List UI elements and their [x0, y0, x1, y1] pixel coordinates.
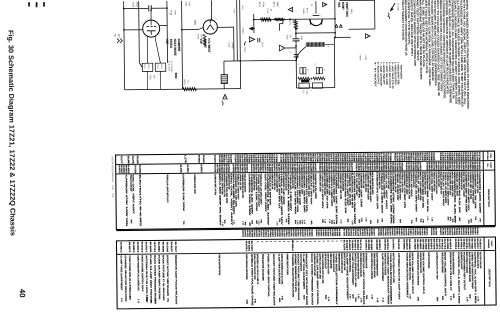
svg-text:30: 30 [376, 219, 379, 223]
svg-text:DAMPER: DAMPER [177, 39, 181, 52]
parts table 1 [111, 151, 496, 239]
svg-text:C175: C175 [131, 156, 134, 165]
svg-text:CLAMP YOKE ADJUSTMENT: CLAMP YOKE ADJUSTMENT [381, 253, 384, 282]
svg-text:45-9475-2: 45-9475-2 [245, 241, 248, 252]
main horiz bus to vert osc [254, 18, 335, 21]
svg-text:CARBON 56K 1W 5%: CARBON 56K 1W 5% [214, 174, 217, 195]
svg-text:33-6325: 33-6325 [426, 162, 429, 171]
svg-text:S188: S188 [127, 156, 130, 165]
wire bottom horizontal [125, 89, 241, 90]
svg-text:SOCKET PICTURE TUBE W/LEADS: SOCKET PICTURE TUBE W/LEADS [297, 254, 300, 302]
fuse links P-8-A [142, 63, 153, 71]
svg-text:33-5582-3: 33-5582-3 [462, 238, 465, 249]
svg-text:ANTENNA BUILT-IN LOOP ASSY: ANTENNA BUILT-IN LOOP ASSY [397, 253, 400, 301]
svg-text:76-8413: 76-8413 [441, 239, 444, 251]
svg-text:C194: C194 [234, 155, 237, 164]
tube V10 vert osc [310, 19, 323, 25]
svg-text:8: 8 [306, 69, 309, 70]
label V15 [165, 39, 169, 45]
svg-text:7 - KINE CATHODE: 7 - KINE CATHODE [379, 62, 382, 86]
svg-text:CORD POWER W/PLUG & INTERLOCK: CORD POWER W/PLUG & INTERLOCK [136, 255, 139, 291]
small labels [184, 1, 187, 7]
svg-text:CABINET ASSY MAHOGANY FINISH: CABINET ASSY MAHOGANY FINISH [326, 253, 329, 274]
svg-text:63-5607-2: 63-5607-2 [439, 228, 442, 236]
supply rails [236, 0, 239, 61]
svg-text:C104: C104 [213, 155, 216, 164]
svg-text:3: 3 [297, 63, 300, 64]
svg-text:60: 60 [369, 220, 372, 224]
mini coil boxes [300, 68, 303, 74]
svg-text:1 10: 1 10 [426, 216, 429, 220]
svg-text:9 - B+ BOOST: 9 - B+ BOOST [374, 62, 377, 88]
voltage labels [359, 54, 362, 61]
svg-text:61-2176: 61-2176 [343, 240, 346, 252]
svg-text:R171: R171 [258, 2, 261, 8]
svg-text:75: 75 [474, 216, 477, 220]
resistor R171 [261, 18, 272, 21]
svg-text:TO YOKE: TO YOKE [396, 2, 399, 11]
svg-text:75: 75 [410, 220, 413, 224]
electrolytic C160 [221, 75, 227, 84]
svg-text:1 25: 1 25 [431, 217, 434, 221]
wire lower bus to yoke box [240, 59, 296, 62]
svg-text:3 - AGC BUS (TP-3): 3 - AGC BUS (TP-3) [391, 62, 394, 89]
svg-text:SWITCH INTERLOCK AC LINE: SWITCH INTERLOCK AC LINE [321, 253, 324, 284]
svg-text:* USED ON 17Z22Q CHASSIS ONLY: * USED ON 17Z22Q CHASSIS ONLY [111, 156, 114, 183]
svg-text:30: 30 [447, 216, 450, 220]
svg-text:OF CHASSIS): OF CHASSIS) [170, 61, 173, 73]
svg-text:75: 75 [479, 218, 482, 222]
svg-text:54-9561: 54-9561 [186, 165, 189, 174]
svg-text:CORD POWER W/PLUG & INTERLOCK: CORD POWER W/PLUG & INTERLOCK [348, 253, 351, 272]
svg-text:C177: C177 [120, 156, 123, 165]
svg-text:CARBON 120K 1/2W: CARBON 120K 1/2W [318, 173, 321, 192]
svg-text:75: 75 [182, 220, 185, 224]
svg-text:6CM7: 6CM7 [341, 2, 345, 10]
stub C164 [282, 19, 284, 23]
svg-text:CABINET ASSY MAHOGANY FINISH: CABINET ASSY MAHOGANY FINISH [329, 253, 332, 268]
svg-text:ANTENNA BUILT-IN LOOP ASSY: ANTENNA BUILT-IN LOOP ASSY [460, 252, 463, 270]
svg-text:CIRCUIT SUBJECT TO CHANGE.: CIRCUIT SUBJECT TO CHANGE. [401, 0, 404, 41]
node B+ boost [114, 34, 117, 37]
svg-text:SPRING EARPHONE JACK RETAINER: SPRING EARPHONE JACK RETAINER [416, 252, 419, 285]
svg-text:8 - AUDIO OUTPUT: 8 - AUDIO OUTPUT [376, 62, 379, 85]
svg-text:CABINET ASSY MAHOGANY FINISH: CABINET ASSY MAHOGANY FINISH [419, 252, 422, 273]
svg-text:KNOB VOLUME CONTROL GOLD: KNOB VOLUME CONTROL GOLD [422, 252, 425, 294]
svg-text:54-1771-2: 54-1771-2 [359, 240, 362, 251]
svg-text:TUBULAR .22 MFD 200V: TUBULAR .22 MFD 200V [129, 175, 132, 192]
svg-text:SOCKET PICTURE TUBE W/LEADS: SOCKET PICTURE TUBE W/LEADS [166, 255, 169, 297]
svg-text:OSC COIL VERT ASSY: OSC COIL VERT ASSY [264, 173, 267, 213]
svg-text:SWITCH INTERLOCK AC LINE: SWITCH INTERLOCK AC LINE [392, 253, 395, 284]
capacitor C103 [148, 5, 150, 11]
capacitor C125 [295, 29, 297, 38]
svg-text:60: 60 [294, 220, 297, 224]
svg-text:63-2114-3: 63-2114-3 [405, 162, 408, 171]
svg-text:45-1715-2: 45-1715-2 [153, 242, 156, 253]
svg-text:1 10: 1 10 [339, 220, 342, 224]
svg-text:SPRING EARPHONE JACK RETAINER: SPRING EARPHONE JACK RETAINER [337, 253, 340, 271]
svg-text:SPEAKER 5 IN. PM 3.2 OHM VC: SPEAKER 5 IN. PM 3.2 OHM VC [476, 252, 479, 269]
svg-text:45-1102-5: 45-1102-5 [136, 242, 139, 253]
svg-text:SCHEM.: SCHEM. [486, 152, 489, 161]
svg-text:60-8918-5: 60-8918-5 [318, 163, 321, 172]
svg-text:CONTROL VOL & ON-OFF 1 MEG: CONTROL VOL & ON-OFF 1 MEG [457, 252, 461, 304]
svg-text:C.P.S.: C.P.S. [305, 90, 308, 96]
svg-text:63-7683-2: 63-7683-2 [460, 239, 463, 250]
svg-text:C103: C103 [132, 2, 135, 8]
svg-text:R110: R110 [393, 153, 396, 162]
svg-text:1 10: 1 10 [241, 221, 244, 225]
svg-text:ELECTROLYTIC 40-40 MFD: ELECTROLYTIC 40-40 MFD [138, 175, 142, 227]
svg-text:R136: R136 [136, 156, 139, 165]
svg-text:63-1561: 63-1561 [247, 241, 250, 253]
svg-text:PIN 3: PIN 3 [350, 9, 353, 14]
svg-text:CORD POWER W/PLUG & INTERLOCK: CORD POWER W/PLUG & INTERLOCK [128, 255, 131, 298]
svg-text:54-3170: 54-3170 [213, 164, 216, 173]
svg-text:275: 275 [302, 90, 305, 93]
transformer T104 [306, 42, 325, 48]
svg-text:30-4454: 30-4454 [416, 239, 419, 251]
svg-text:66-7317: 66-7317 [174, 241, 177, 253]
svg-text:54-4347-3: 54-4347-3 [354, 240, 357, 251]
svg-text:30: 30 [467, 220, 470, 224]
svg-text:56-4235: 56-4235 [446, 239, 449, 251]
resistor R173 [275, 18, 284, 21]
svg-text:No.: No. [486, 163, 489, 168]
svg-text:45-9474-3: 45-9474-3 [241, 230, 244, 238]
svg-text:SPRING EARPHONE JACK RETAINER: SPRING EARPHONE JACK RETAINER [261, 254, 264, 281]
svg-text:1 25: 1 25 [351, 221, 354, 225]
test point 12 [249, 37, 254, 42]
svg-text:66-4424-3: 66-4424-3 [386, 239, 389, 250]
svg-text:56-2050-2: 56-2050-2 [430, 239, 433, 250]
svg-text:76-6649-5: 76-6649-5 [351, 240, 354, 251]
svg-text:66-8071: 66-8071 [128, 242, 131, 254]
svg-text:56-8435: 56-8435 [149, 242, 152, 254]
svg-text:R193: R193 [439, 153, 442, 162]
svg-text:SOCKET PICTURE TUBE W/LEADS: SOCKET PICTURE TUBE W/LEADS [272, 254, 276, 306]
wire lower bus [224, 60, 240, 62]
svg-text:C162: C162 [149, 75, 152, 81]
svg-text:CARBON 120K 1/2W: CARBON 120K 1/2W [248, 173, 251, 215]
test point 4 [365, 34, 370, 39]
svg-text:SHIELD HIGH VOLTAGE CAGE: SHIELD HIGH VOLTAGE CAGE [479, 252, 482, 269]
svg-text:63-2527: 63-2527 [468, 238, 471, 250]
svg-text:30-2053: 30-2053 [138, 165, 141, 174]
svg-text:R156: R156 [197, 155, 200, 164]
svg-text:2 - VIDEO DET OUTPUT: 2 - VIDEO DET OUTPUT [394, 62, 397, 85]
vertical rail A [166, 1, 169, 63]
registration marks [28, 2, 30, 6]
svg-text:1 10: 1 10 [276, 221, 279, 225]
svg-text:PART: PART [490, 241, 493, 248]
svg-text:DESCRIPTION: DESCRIPTION [487, 189, 490, 208]
svg-text:H.V. RECT: H.V. RECT [207, 38, 211, 52]
svg-text:GROMMET RUBBER 3/8 YOKE MTG: GROMMET RUBBER 3/8 YOKE MTG [286, 254, 289, 275]
svg-text:SOCKET PICTURE TUBE W/LEADS: SOCKET PICTURE TUBE W/LEADS [427, 252, 430, 268]
svg-text:66-5947: 66-5947 [348, 240, 351, 252]
svg-text:PART: PART [489, 162, 492, 169]
resistor R166 [203, 34, 206, 46]
svg-text:VERT OSC: VERT OSC [345, 2, 349, 18]
svg-text:FUSE 1/4 AMP 250V PIGTAIL: FUSE 1/4 AMP 250V PIGTAIL [218, 254, 221, 276]
svg-text:56-9080: 56-9080 [408, 239, 411, 251]
svg-text:30: 30 [399, 219, 402, 223]
svg-text:BRACKET CRT MTG RIGHT HAND: BRACKET CRT MTG RIGHT HAND [343, 253, 346, 270]
svg-text:SPEAKER 5 IN. PM 3.2 OHM VC: SPEAKER 5 IN. PM 3.2 OHM VC [256, 254, 259, 285]
svg-text:45-9468-2: 45-9468-2 [457, 239, 460, 250]
svg-text:3: 3 [313, 63, 316, 64]
svg-text:+135V: +135V [364, 54, 367, 61]
svg-text:75: 75 [419, 218, 422, 222]
svg-text:5 - VERT OSC GRID: 5 - VERT OSC GRID [385, 62, 388, 86]
svg-text:FUSE 1/4 AMP 250V PIGTAIL: FUSE 1/4 AMP 250V PIGTAIL [149, 255, 153, 304]
svg-text:56-5326: 56-5326 [375, 239, 378, 251]
tube V15 damper [143, 20, 160, 37]
svg-text:60-3647-2: 60-3647-2 [118, 165, 121, 174]
svg-text:76-2533-3: 76-2533-3 [355, 163, 358, 172]
svg-text:33-7471: 33-7471 [438, 239, 441, 251]
series capacitor in left leg [294, 54, 299, 56]
svg-text:1 - HORIZ OUTPUT GRID: 1 - HORIZ OUTPUT GRID [397, 62, 400, 85]
svg-text:1500: 1500 [135, 2, 138, 8]
svg-text:56-9243: 56-9243 [427, 239, 430, 251]
svg-text:63-1915-5: 63-1915-5 [430, 228, 433, 236]
wire [123, 1, 126, 89]
svg-text:56-6131: 56-6131 [397, 239, 400, 251]
svg-text:CLAMP YOKE ADJUSTMENT: CLAMP YOKE ADJUSTMENT [302, 254, 305, 290]
test point 5 [279, 45, 285, 51]
label V16 [199, 38, 203, 44]
svg-text:5962: 5962 [174, 73, 177, 79]
svg-text:CORD POWER W/PLUG & INTERLOCK: CORD POWER W/PLUG & INTERLOCK [370, 253, 373, 280]
svg-text:FB-22: FB-22 [147, 64, 150, 69]
test point 9 [223, 94, 227, 99]
svg-text:SPEAKER 5 IN. PM 3.2 OHM VC: SPEAKER 5 IN. PM 3.2 OHM VC [449, 252, 452, 291]
svg-text:HALF WAVE: HALF WAVE [173, 39, 177, 56]
svg-text:FB-23: FB-23 [160, 64, 163, 69]
svg-text:76-2913-3: 76-2913-3 [479, 238, 482, 249]
svg-text:33-3065: 33-3065 [367, 239, 370, 251]
svg-text:CHANNEL SELECTOR INDICATOR: CHANNEL SELECTOR INDICATOR [291, 254, 294, 298]
svg-text:54-4873: 54-4873 [435, 239, 438, 251]
svg-text:TEST POINTS:: TEST POINTS: [399, 65, 402, 79]
svg-text:YOKE DEFLECTION ASSEMBLY: YOKE DEFLECTION ASSEMBLY [405, 252, 408, 298]
svg-text:76-1356: 76-1356 [134, 165, 137, 174]
svg-text:8: 8 [323, 69, 326, 70]
svg-text:56-3286-3: 56-3286-3 [291, 240, 294, 251]
svg-text:63-7966: 63-7966 [377, 229, 380, 237]
svg-text:KNOB VOLUME CONTROL GOLD: KNOB VOLUME CONTROL GOLD [324, 253, 327, 268]
svg-text:TRANSFORMER VERT OUTPUT: TRANSFORMER VERT OUTPUT [462, 252, 465, 291]
wire to V16 [182, 29, 198, 31]
svg-text:ANTENNA BUILT-IN LOOP ASSY: ANTENNA BUILT-IN LOOP ASSY [435, 252, 438, 280]
svg-text:75: 75 [381, 218, 384, 222]
svg-text:33-7660: 33-7660 [413, 239, 416, 251]
svg-text:33-2028-3: 33-2028-3 [345, 240, 348, 251]
svg-text:30-1521-2: 30-1521-2 [145, 242, 148, 253]
svg-text:SHIELD HIGH VOLTAGE CAGE: SHIELD HIGH VOLTAGE CAGE [250, 254, 254, 307]
svg-text:45-7659: 45-7659 [422, 239, 425, 251]
svg-text:MASK PICTURE 17 IN. MOLDED: MASK PICTURE 17 IN. MOLDED [162, 255, 165, 301]
svg-text:19AU4: 19AU4 [169, 39, 173, 48]
resistor R124 [298, 77, 310, 80]
svg-text:CLAMP YOKE ADJUSTMENT: CLAMP YOKE ADJUSTMENT [345, 253, 348, 301]
svg-text:YOKE DEFLECTION ASSEMBLY: YOKE DEFLECTION ASSEMBLY [441, 252, 444, 273]
svg-text:56-3269: 56-3269 [370, 239, 373, 251]
svg-text:56-3572: 56-3572 [383, 239, 386, 251]
svg-text:470K: 470K [173, 10, 176, 15]
svg-text:30-4789: 30-4789 [179, 165, 182, 174]
svg-text:1 MEG: 1 MEG [302, 8, 305, 15]
svg-text:CONTROL VOL & ON-OFF 1 MEG: CONTROL VOL & ON-OFF 1 MEG [473, 252, 477, 304]
svg-text:NUMBER: NUMBER [487, 239, 490, 249]
svg-text:R126: R126 [218, 155, 221, 164]
svg-text:SWITCH INTERLOCK AC LINE: SWITCH INTERLOCK AC LINE [365, 253, 368, 269]
svg-text:FUSE 1/4 AMP 250V PIGTAIL: FUSE 1/4 AMP 250V PIGTAIL [316, 253, 320, 306]
arrow control indicator [251, 28, 254, 30]
svg-text:45: 45 [346, 218, 349, 222]
resistor R162 [183, 87, 197, 90]
svg-text:BACK COVER PRESSED BOARD: BACK COVER PRESSED BOARD [468, 252, 471, 282]
right vertical bus [334, 0, 336, 37]
svg-text:1 25: 1 25 [365, 217, 368, 221]
test point 6 [323, 2, 327, 6]
svg-text:63-5612: 63-5612 [356, 240, 359, 252]
svg-text:SPRING EARPHONE JACK RETAINER: SPRING EARPHONE JACK RETAINER [245, 254, 248, 280]
svg-text:CLAMP YOKE ADJUSTMENT: CLAMP YOKE ADJUSTMENT [351, 253, 354, 286]
svg-text:100K: 100K [276, 2, 279, 7]
svg-text:61-2448-2: 61-2448-2 [392, 239, 395, 250]
svg-text:SHIELD HIGH VOLTAGE CAGE: SHIELD HIGH VOLTAGE CAGE [299, 254, 302, 272]
svg-text:R173: R173 [272, 2, 275, 8]
wire [217, 26, 233, 28]
svg-text:40: 40 [18, 289, 27, 298]
svg-text:60-3751: 60-3751 [465, 238, 468, 250]
svg-text:66-9655-2: 66-9655-2 [315, 229, 318, 237]
wire [124, 7, 148, 9]
resistor R172 vertical [295, 19, 297, 20]
svg-text:33-6052-3: 33-6052-3 [200, 164, 203, 173]
svg-text:45: 45 [255, 220, 258, 224]
svg-text:1 10: 1 10 [328, 219, 331, 223]
svg-text:R163: R163 [202, 155, 205, 164]
svg-text:60: 60 [130, 220, 133, 224]
svg-text:60-1778-3: 60-1778-3 [443, 239, 446, 250]
svg-text:MASK PICTURE 17 IN. MOLDED: MASK PICTURE 17 IN. MOLDED [465, 252, 468, 274]
svg-text:KNOB VOLUME CONTROL GOLD: KNOB VOLUME CONTROL GOLD [411, 252, 414, 294]
svg-text:CARBON 470K 1/2W 10%: CARBON 470K 1/2W 10% [125, 175, 129, 227]
svg-text:BRACKET CRT MTG RIGHT HAND: BRACKET CRT MTG RIGHT HAND [340, 253, 343, 273]
svg-text:60: 60 [415, 218, 418, 222]
svg-text:DESCRIPTION: DESCRIPTION [488, 269, 491, 288]
svg-text:4: 4 [327, 46, 330, 47]
svg-text:45: 45 [458, 217, 461, 221]
yoke network box [295, 54, 297, 88]
svg-text:CARBON 3.3K 1/2W: CARBON 3.3K 1/2W [182, 174, 185, 211]
svg-text:V16: V16 [199, 38, 203, 44]
svg-text:FUSE 1/4 AMP 250V PIGTAIL: FUSE 1/4 AMP 250V PIGTAIL [267, 254, 270, 298]
test point 13 [288, 7, 293, 11]
svg-text:33-2982-2: 33-2982-2 [378, 239, 381, 250]
svg-text:KNOB VOLUME CONTROL GOLD: KNOB VOLUME CONTROL GOLD [443, 252, 446, 296]
svg-text:30-7367: 30-7367 [250, 241, 253, 253]
svg-text:BACK COVER PRESSED BOARD: BACK COVER PRESSED BOARD [310, 253, 314, 305]
svg-text:33-8082: 33-8082 [402, 239, 405, 251]
svg-text:TUBULAR .0047 MFD 1KV: TUBULAR .0047 MFD 1KV [166, 174, 169, 203]
svg-text:63-9277: 63-9277 [476, 238, 479, 250]
svg-text:CLAMP YOKE ADJUSTMENT: CLAMP YOKE ADJUSTMENT [277, 254, 280, 285]
svg-text:56-7306: 56-7306 [432, 239, 435, 251]
svg-text:+250.8: +250.8 [241, 27, 244, 34]
svg-text:54-6669-5: 54-6669-5 [132, 242, 135, 253]
svg-text:1B3GT: 1B3GT [203, 38, 207, 48]
wire plate return [296, 32, 335, 34]
tube V16 HV rect [203, 20, 217, 34]
svg-text:TRANSFORMER VERT OUTPUT: TRANSFORMER VERT OUTPUT [332, 253, 335, 272]
svg-text:4 - SYNC SEP OUTPUT: 4 - SYNC SEP OUTPUT [388, 62, 391, 89]
svg-text:YOKE DEFLECTION ASSEMBLY: YOKE DEFLECTION ASSEMBLY [335, 253, 339, 306]
svg-text:45-2317: 45-2317 [473, 238, 476, 250]
svg-text:56-9968: 56-9968 [161, 242, 164, 254]
svg-text:CABINET ASSY MAHOGANY FINISH: CABINET ASSY MAHOGANY FINISH [471, 252, 474, 289]
svg-text:FUSE 1/4 AMP 250V PIGTAIL: FUSE 1/4 AMP 250V PIGTAIL [157, 255, 160, 301]
svg-text:45: 45 [248, 222, 251, 226]
svg-text:MICA 560 MMF 5% 500V: MICA 560 MMF 5% 500V [218, 174, 222, 227]
svg-text:CHANNEL SELECTOR INDICATOR: CHANNEL SELECTOR INDICATOR [124, 255, 127, 302]
wire [124, 29, 143, 31]
svg-text:RESISTOR ASSY FOCUS W/LEADS: RESISTOR ASSY FOCUS W/LEADS [174, 255, 178, 305]
damper boxes [299, 83, 309, 88]
svg-text:66-4000-2: 66-4000-2 [364, 239, 367, 250]
svg-text:+47V: +47V [241, 5, 244, 11]
test points 10 11 [335, 24, 338, 27]
svg-text:30: 30 [358, 219, 361, 223]
node junction rail [253, 14, 255, 33]
svg-text:6 - SOUND TAKE-OFF: 6 - SOUND TAKE-OFF [382, 62, 385, 85]
label C162 [149, 75, 152, 81]
svg-text:60: 60 [310, 221, 313, 225]
svg-text:V10: V10 [337, 2, 341, 8]
resistor R125 [313, 77, 325, 80]
svg-text:33-9803-5: 33-9803-5 [449, 239, 452, 250]
svg-text:45-8591: 45-8591 [419, 239, 422, 251]
label V10 [337, 2, 341, 8]
svg-text:+47V: +47V [232, 8, 235, 14]
svg-text:R162: R162 [183, 80, 186, 86]
svg-text:63-8113-5: 63-8113-5 [405, 239, 408, 250]
svg-text:56-2613-5: 56-2613-5 [140, 242, 143, 253]
vertical rail B [181, 1, 184, 89]
svg-text:CABINET ASSY MAHOGANY FINISH: CABINET ASSY MAHOGANY FINISH [386, 253, 390, 305]
svg-text:CARBON 27K 1/2W 10%: CARBON 27K 1/2W 10% [375, 172, 378, 209]
svg-text:+250V: +250V [359, 54, 362, 61]
svg-text:76-1343: 76-1343 [166, 242, 169, 254]
misc small labels [170, 10, 173, 16]
svg-text:CARBON 3.3K 1/2W: CARBON 3.3K 1/2W [193, 174, 196, 194]
svg-text:63-1102: 63-1102 [343, 229, 346, 237]
svg-text:56-5581: 56-5581 [157, 242, 160, 254]
capacitor C10 [257, 38, 259, 42]
svg-text:75: 75 [285, 218, 288, 222]
svg-text:FIG.: FIG. [489, 153, 492, 159]
svg-text:KNOB VOLUME CONTROL GOLD: KNOB VOLUME CONTROL GOLD [141, 255, 144, 292]
svg-text:20MFD: 20MFD [231, 42, 234, 49]
svg-text:63-5459-5: 63-5459-5 [454, 239, 457, 250]
svg-text:CLAMP YOKE ADJUSTMENT: CLAMP YOKE ADJUSTMENT [120, 255, 123, 291]
svg-text:45-3330-3: 45-3330-3 [119, 242, 122, 253]
